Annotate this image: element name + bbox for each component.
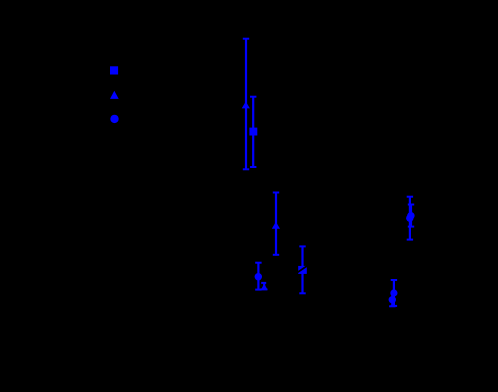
error bar E top cap xyxy=(255,262,261,264)
error bar B top cap xyxy=(243,38,249,40)
error bar G1 line (circle series pt2a) xyxy=(409,197,411,240)
error bar G1 top cap xyxy=(407,196,413,198)
error bar F line (square series pt2) xyxy=(301,246,303,293)
circle marker H2 xyxy=(389,296,396,303)
triangle marker D xyxy=(272,222,280,229)
error bar D top cap xyxy=(273,192,279,194)
error bar E2 bottom cap xyxy=(260,288,267,290)
error bar E bottom cap xyxy=(255,289,261,291)
circle marker G2 xyxy=(407,212,414,219)
legend marker circle (series 3) xyxy=(110,115,118,123)
circle marker E xyxy=(255,273,262,280)
error bar D bottom cap xyxy=(273,254,279,256)
error bar G2 bottom cap xyxy=(408,226,414,228)
error bar D line (triangle series pt2) xyxy=(275,193,277,255)
error bar H1 top cap xyxy=(391,279,397,281)
circle marker H1 xyxy=(390,289,397,296)
error bar E line (circle series pt1) xyxy=(257,263,259,290)
error bar H2 bottom cap xyxy=(389,305,395,307)
error bar C bottom cap xyxy=(250,166,256,168)
square marker C xyxy=(249,128,257,136)
error bar G1 bottom cap xyxy=(407,239,413,241)
error bar H1 line (circle series pt3a) xyxy=(393,280,395,306)
triangle marker B xyxy=(242,102,250,109)
error bar B bottom cap xyxy=(243,168,249,170)
triangle marker E2 xyxy=(261,284,268,290)
error bar G2 top cap xyxy=(408,204,414,206)
legend marker triangle (series 2) xyxy=(110,91,119,99)
error bar E2 top cap xyxy=(261,282,266,284)
square marker F xyxy=(298,266,307,274)
error bar C top cap xyxy=(250,96,256,98)
circle marker G1 xyxy=(406,214,413,221)
error bar C line (square series pt1) xyxy=(252,97,254,167)
legend marker square (series 1) xyxy=(110,66,118,74)
error bar G2 line (circle series pt2b) xyxy=(410,205,412,227)
error bar E2 line (small triangle overlap) xyxy=(263,283,265,290)
error bar H1 bottom cap xyxy=(391,305,397,307)
error bar F top cap xyxy=(299,245,305,247)
black slash across square marker F xyxy=(298,266,308,272)
error bar F bottom cap xyxy=(299,292,305,294)
error bar B line (triangle series pt1) xyxy=(245,39,247,170)
error bar H2 line (circle series pt3b) xyxy=(391,294,393,306)
